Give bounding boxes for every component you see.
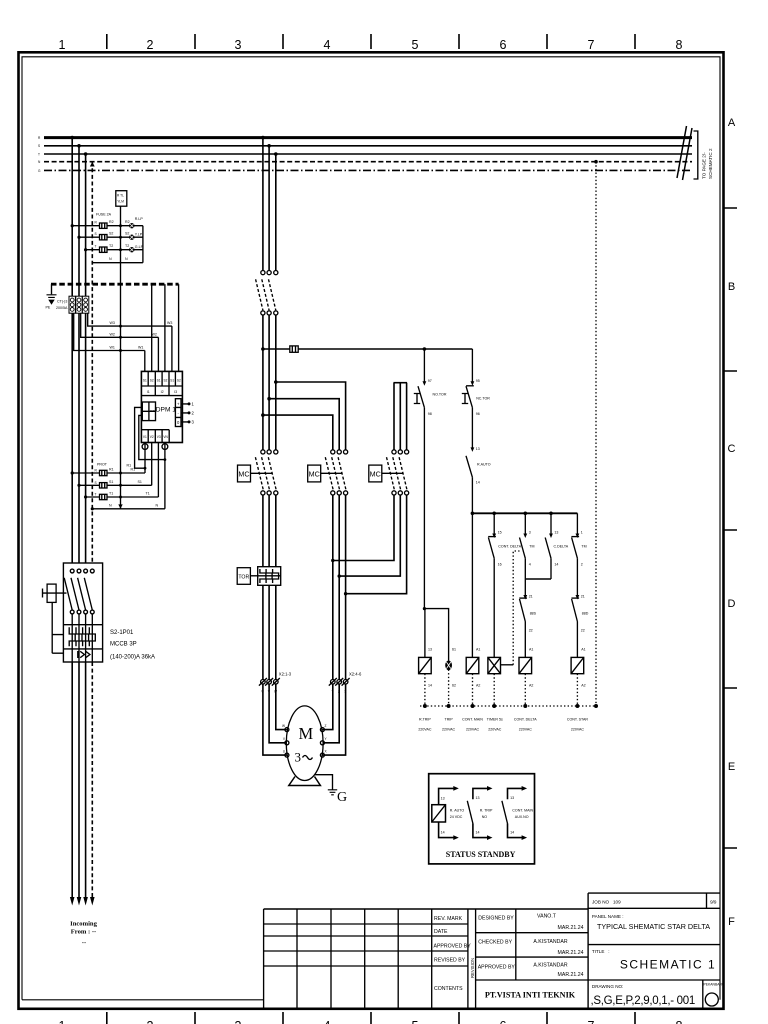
coil CONT.MAIN [466,648,480,688]
svg-text:MC: MC [238,469,249,478]
wire delta contactor down 1 [332,495,334,680]
svg-text:2: 2 [147,38,154,52]
svg-text:14: 14 [510,831,514,835]
svg-text:MC: MC [309,469,320,478]
svg-text:PE: PE [46,306,51,310]
power meter DPM1 [141,371,182,442]
node delta-star links [331,559,334,562]
svg-text:98: 98 [428,412,432,416]
fuse inner marks [102,223,105,252]
wire lamp row T2 [86,249,143,251]
svg-text:D: D [728,598,736,610]
svg-text:4: 4 [324,38,331,52]
fuse PROT S1 [100,483,108,488]
wire DPM S2-2 drop [164,284,166,371]
svg-text:VN: VN [163,435,168,439]
fuse F-R2 [100,223,108,228]
svg-text:PT.VISTA INTI TEKNIK: PT.VISTA INTI TEKNIK [485,991,576,1000]
svg-text:YLM: YLM [117,200,124,204]
wire main contactor to TOR pole 2 [268,495,270,567]
wire main contactor to TOR pole 3 [275,495,277,567]
svg-text:3: 3 [235,38,242,52]
wire jumper T to delta [276,382,346,450]
svg-text:T1: T1 [109,492,113,496]
svg-text:R2: R2 [125,220,130,224]
svg-text:PROT: PROT [97,463,108,467]
bus labels [38,136,41,173]
contactor MC delta [308,450,348,495]
node jumper taps [274,380,278,384]
svg-text:R1: R1 [131,468,136,472]
fuse PROT R1 [100,470,108,475]
svg-text:MAR.21.24: MAR.21.24 [558,925,584,931]
node NO.TOR branch [423,347,427,351]
wire link delta-star 1 [333,495,394,561]
wire PROT row R1 [72,472,145,474]
svg-text:14: 14 [476,831,480,835]
wire DPM V2 drop [151,443,153,486]
svg-text:13: 13 [510,796,514,800]
svg-text:X2:4-6: X2:4-6 [349,672,362,677]
wire S feeder vertical [78,146,80,569]
svg-text:4: 4 [324,1019,331,1024]
svg-text:(140-200)A 36kA: (140-200)A 36kA [110,655,155,661]
lamp GL [129,247,134,252]
DPM aux supply wire A [135,407,145,468]
control neutral bus (dotted) [420,705,596,707]
svg-text:F: F [728,916,735,928]
wire DPM VN drop [164,443,166,509]
wire link delta-star 2 [339,495,400,576]
wire motor Y lead [322,684,339,743]
svg-text:S2: S2 [109,232,113,236]
wire star pole 2 [399,383,401,450]
svg-text:REV. MARK: REV. MARK [434,916,463,922]
svg-text:9/9: 9/9 [710,900,717,905]
svg-text:T2: T2 [125,244,129,248]
svg-text:aux: aux [150,409,156,413]
svg-text:TM: TM [581,545,586,549]
contact R.TRIP NO [467,786,493,840]
wire to CONT.MAIN coil [471,513,473,657]
wire W3 CT secondary [88,313,172,326]
svg-text:N: N [156,503,159,507]
node crossings on W rows [119,349,122,352]
wire TOR to terminal W [275,585,277,679]
svg-text:22: 22 [529,629,533,633]
svg-text:S1: S1 [157,379,161,383]
motor ground G [315,775,348,805]
wire N row [92,508,165,510]
svg-text:NC.TOR: NC.TOR [476,397,490,401]
svg-text:--: -- [82,940,86,947]
svg-text:G: G [337,790,347,805]
svg-text:S: S [95,481,97,485]
right ruler row letters [724,117,738,928]
wire motor S vertical [268,146,270,271]
bus N (dashed) [44,161,692,163]
svg-text:22: 22 [581,629,585,633]
svg-text:SCHEMATIC 2: SCHEMATIC 2 [708,148,713,179]
svg-text:PANEL NAME :: PANEL NAME : [592,914,624,919]
svg-text:14: 14 [441,831,445,835]
svg-text:220VAC: 220VAC [418,728,432,732]
svg-text:W1: W1 [110,346,115,350]
svg-text:C: C [728,443,736,455]
wire N feeder vertical (dashed) [91,162,93,570]
svg-text:1: 1 [59,38,66,52]
svg-text:14: 14 [428,684,432,688]
neutral return vertical (dotted) [595,162,597,706]
motor base [289,777,321,786]
node taps PROT [71,471,74,474]
wire motor X lead [322,684,345,755]
timer mechanical link (dotted) [501,664,514,666]
node tap S [77,144,81,148]
loop marks on drops [142,444,148,450]
svg-text:VANO.T: VANO.T [537,914,557,920]
svg-text:V2: V2 [150,435,154,439]
svg-text:88S: 88S [530,612,537,616]
svg-text:CONT. DELTA: CONT. DELTA [514,718,537,722]
svg-text:T2: T2 [109,244,113,248]
svg-text:AUX.NO: AUX.NO [515,815,529,819]
svg-text:W: W [282,724,285,728]
svg-text:S2-1P01: S2-1P01 [110,630,134,636]
svg-text:W1: W1 [138,346,143,350]
wire W1 CT secondary [74,313,145,350]
svg-text:T: T [95,245,97,249]
wire delta contactor down 2 [338,495,340,680]
CT 1 [69,296,75,313]
svg-text:CHECKED BY: CHECKED BY [478,940,512,946]
svg-text:A.KISTANDAR: A.KISTANDAR [533,939,567,945]
wire DPM S1-3 drop [171,326,173,371]
svg-text:R. TRIP: R. TRIP [480,809,493,813]
control bus [472,512,577,514]
title block revision table [264,909,588,1008]
svg-text:97: 97 [428,379,432,383]
svg-text:5: 5 [412,1019,419,1024]
contact CONT.DELTA NC (15/16) [488,513,522,657]
svg-text:21: 21 [529,595,533,599]
svg-text:TM: TM [529,545,534,549]
fuse PROT T1 [100,494,108,499]
top ruler column numbers [59,34,683,52]
terminal X2:4-6 [329,672,362,694]
svg-text:REVISION: REVISION [470,958,475,978]
svg-text:I3: I3 [174,390,177,394]
svg-text:From : --: From : -- [71,929,97,936]
svg-text:I1: I1 [147,390,150,394]
contact CONT.MAIN AUX.NO [502,786,534,840]
svg-text:S1: S1 [138,480,142,484]
svg-text:DESIGNED BY: DESIGNED BY [478,916,514,922]
svg-text:4: 4 [529,563,531,567]
lamp YL [129,235,134,240]
coil CONT.STAR [571,648,586,688]
wire jumper R to delta [263,415,333,450]
svg-text:R. AUTO: R. AUTO [450,809,465,813]
svg-text:S: S [95,232,97,236]
wire PROT row T1 [86,496,159,498]
svg-text:TO PAGE 2/-: TO PAGE 2/- [702,152,707,179]
svg-text:62: 62 [452,684,456,688]
wire lamp bottom N [92,262,143,264]
svg-text:A2: A2 [581,684,585,688]
wire lamp row S2 [79,236,143,238]
svg-text:T: T [95,493,97,497]
svg-text:1: 1 [581,531,583,535]
svg-text:109: 109 [613,900,621,905]
wire TOR to terminal V [268,585,270,679]
contactor MC main [238,450,278,495]
svg-text:CONT. STAR: CONT. STAR [567,718,589,722]
wire T feeder vertical [85,154,87,569]
wire neutral drop from box [120,206,122,509]
svg-text:220VAC: 220VAC [488,728,502,732]
svg-text:NO.TOR: NO.TOR [433,393,447,397]
wire incoming T [85,662,87,897]
svg-text:3: 3 [529,531,531,535]
svg-text:CONTENTS: CONTENTS [434,986,463,992]
svg-text:W3: W3 [110,321,115,325]
svg-text:R1: R1 [109,468,114,472]
svg-text:T: T [38,152,40,156]
status standby box [429,774,535,864]
svg-text:S1: S1 [109,480,113,484]
wire motor Z lead [322,684,332,730]
node tap T [84,152,88,156]
svg-text:R.AUTO: R.AUTO [477,463,491,467]
wire DPM S1-2 drop [157,337,159,371]
labels coil names [418,718,588,732]
svg-text:S2: S2 [177,379,181,383]
svg-text:CT(-)3: CT(-)3 [57,300,67,304]
wire join TM/C.DELTA [525,578,551,580]
svg-text:220VAC: 220VAC [571,728,585,732]
svg-text:S1: S1 [143,379,147,383]
svg-text:TITLE :: TITLE : [592,949,610,954]
svg-text:CONT. MAIN: CONT. MAIN [462,718,483,722]
svg-text:R2: R2 [109,220,114,224]
svg-text:R.LP: R.LP [135,217,144,221]
node tap R [70,136,74,140]
svg-text:6: 6 [500,38,507,52]
wire motor V lead [269,684,287,743]
svg-text:14: 14 [476,481,480,485]
wire jumper S to delta [269,399,339,450]
svg-text:24 VDC: 24 VDC [450,815,463,819]
contact R.AUTO [466,447,491,513]
bus G (dash-dot) [44,169,692,171]
wire main contactor to TOR pole 1 [262,495,264,567]
svg-text:3: 3 [235,1019,242,1024]
svg-text:2: 2 [147,1019,154,1024]
wire DPM V1 drop [144,443,146,474]
earth busbar (thick dashed) [51,283,179,286]
motor branch taps [261,136,265,140]
wire R.TRIP branch [424,609,448,662]
svg-text:3: 3 [295,750,302,765]
svg-text:MAR.21.24: MAR.21.24 [558,950,584,956]
wire DPM V3 drop [157,443,159,498]
wire motor R vertical mid [262,315,264,450]
wire star pole 3 [406,383,408,450]
node tap N arrow [90,162,95,167]
svg-text:13: 13 [428,648,432,652]
node control tap [261,347,265,351]
svg-text:NO: NO [482,815,488,819]
svg-text:REVISED BY: REVISED BY [434,958,466,964]
svg-text:A2: A2 [476,684,480,688]
svg-text:7: 7 [588,1019,595,1024]
wire DPM S2-1 drop [151,284,153,371]
contact 88S NC [519,579,536,657]
svg-text:C.DELTA: C.DELTA [554,545,569,549]
svg-text:A: A [728,117,736,129]
svg-text:13: 13 [441,797,445,801]
wire TOR to terminal U [262,585,264,679]
MCCB S2-1P01 [63,563,102,662]
contact NO.TOR [414,349,447,609]
svg-text:TOR: TOR [238,574,249,580]
svg-text:A1: A1 [529,648,533,652]
wire incoming N (dashed) [91,662,93,897]
svg-text:N: N [109,257,112,261]
star bridge [394,382,408,384]
bus S [44,145,692,147]
MCCB trip linkage [52,602,63,653]
svg-text:MC: MC [370,469,381,478]
svg-text:W2: W2 [110,332,115,336]
svg-text:S: S [38,144,40,148]
terminal X2:1-3 [259,672,292,694]
svg-text:13: 13 [476,796,480,800]
wire lamp common vertical [142,226,144,263]
contact TM NO (3/4) [520,513,535,579]
svg-text:TYPICAL SHEMATIC STAR DELTA: TYPICAL SHEMATIC STAR DELTA [597,922,710,931]
svg-text:61: 61 [452,648,456,652]
wire DPM S2-3 drop [178,284,180,371]
motor M 3~ [282,706,328,781]
wire motor W lead [276,684,287,730]
CT 2 [76,296,82,313]
svg-text:M: M [299,724,314,743]
svg-text:A1: A1 [476,648,480,652]
svg-text:W3: W3 [167,321,172,325]
relay R.AUTO 24VDC [432,786,465,840]
lamp RL [129,223,134,228]
svg-text:I2: I2 [161,390,164,394]
svg-text:1: 1 [59,1019,66,1024]
wire incoming R [71,662,73,897]
title block signatures [476,909,588,1000]
CT 3 [82,296,88,313]
bus R [44,136,692,139]
node crossings on lamp rows [119,224,122,227]
svg-text:CONT. DELTA: CONT. DELTA [498,545,521,549]
svg-text:88D: 88D [582,612,589,616]
contact C.DELTA NO (13/14) [545,513,569,579]
fuse F-S2 [100,235,108,240]
svg-text:DATE: DATE [434,929,448,935]
svg-text:5: 5 [412,38,419,52]
svg-text:220VAC: 220VAC [519,728,533,732]
svg-text:DRAWING NO:: DRAWING NO: [592,984,623,989]
svg-text:16: 16 [498,563,502,567]
DPM aux supply wire B [139,415,165,459]
wire motor T vertical [275,154,277,271]
svg-text:E: E [728,761,735,773]
wire PROT row S1 [79,484,152,486]
wire lamp row R2 [72,225,143,227]
fuse F-T2 [100,247,108,252]
svg-text:N: N [125,257,128,261]
svg-text:A.KISTANDAR: A.KISTANDAR [533,962,567,968]
svg-text:21: 21 [581,595,585,599]
node crossings neutral drop [119,472,122,475]
svg-text:SCHEMATIC 1: SCHEMATIC 1 [620,958,716,972]
coil CONT.DELTA [519,648,533,688]
coil TIMER [488,657,501,673]
coil R.TRIP [419,648,432,688]
bus T [44,153,692,155]
wire DPM S1-1 drop [144,351,146,372]
node lamp taps [71,224,74,227]
coil drops (dotted) [424,674,426,706]
svg-text:200/5A: 200/5A [56,306,68,310]
wire motor T vertical mid [275,315,277,450]
wire motor U lead [263,684,287,755]
control supply wire [263,348,473,350]
PE earth symbol [46,284,57,309]
wire motor S vertical mid [268,315,270,450]
wire delta contactor down 3 [345,495,347,680]
svg-text:13: 13 [476,447,480,451]
DPM output stubs 1 2 3 [181,402,195,425]
svg-text:15: 15 [498,531,502,535]
incoming arrows [70,897,95,906]
contact NC.TOR [462,349,491,449]
svg-text:MCCB 3P: MCCB 3P [110,642,137,648]
svg-text:14: 14 [554,563,558,567]
svg-text:N: N [109,503,112,507]
disconnect contacts [256,271,278,316]
svg-text:Y.LP: Y.LP [135,233,143,237]
svg-text:Incoming: Incoming [70,921,97,928]
svg-text:A1: A1 [581,648,585,652]
svg-text:TRIP: TRIP [445,718,454,722]
svg-text:APPROVED BY: APPROVED BY [478,965,516,971]
svg-text:TIMER 5s: TIMER 5s [487,718,503,722]
svg-text:96: 96 [476,412,480,416]
svg-text:6: 6 [500,1019,507,1024]
svg-text:APPROVED BY: APPROVED BY [434,944,472,950]
svg-text:Z: Z [325,724,327,728]
svg-text:X2:1-3: X2:1-3 [279,672,292,677]
svg-text:220VAC: 220VAC [466,728,480,732]
thermal overload TOR [237,567,281,586]
svg-text:A2: A2 [529,684,533,688]
title block job/panel/title/drawing [588,893,725,1008]
contact TM NC (1/2) [571,513,586,596]
lamp TRIP [445,648,456,688]
svg-text:B: B [728,281,735,293]
svg-text:R TL: R TL [117,194,124,198]
wire incoming S [78,662,80,897]
svg-text:MAR.21.24: MAR.21.24 [558,972,584,978]
